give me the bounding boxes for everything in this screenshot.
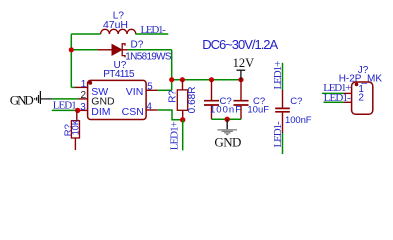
svg-text:3: 3	[80, 102, 86, 113]
capacitor C? 10uF plates	[234, 101, 249, 105]
connector J? H-2P_MK box	[352, 82, 373, 114]
pin 5 lead	[146, 89, 157, 91]
svg-text:100nF: 100nF	[285, 115, 312, 126]
capacitor C? 100nF right lead top	[282, 90, 284, 108]
wire diode to corner	[128, 49, 172, 51]
wire vertical diode to pin5	[171, 50, 173, 91]
wire connector pin2	[324, 101, 344, 103]
ground symbol bars	[218, 129, 238, 135]
wire cap3 bottom stub LED1-	[282, 133, 284, 154]
capacitor C? 100nF right lead bottom	[282, 113, 284, 133]
node junction rail-resistor	[180, 77, 185, 82]
wire pin5 to vertical	[157, 89, 171, 91]
svg-text:H-2P_MK: H-2P_MK	[339, 73, 383, 84]
svg-text:GND: GND	[214, 134, 241, 149]
svg-text:C?: C?	[290, 96, 302, 107]
svg-text:CSN: CSN	[122, 106, 144, 118]
resistor R? 10K body	[71, 121, 79, 138]
node junction rail-diode	[169, 77, 174, 82]
resistor R? 10K lead bottom	[74, 138, 76, 150]
svg-text:0.68R: 0.68R	[187, 87, 198, 114]
svg-text:DC6~30V/1.2A: DC6~30V/1.2A	[202, 37, 278, 52]
inductor L?	[101, 29, 136, 34]
wire top horizontal to inductor	[71, 33, 100, 35]
svg-text:R?: R?	[168, 90, 179, 103]
diode D? schottky cathode bar	[122, 44, 125, 58]
power symbol 12V bar	[237, 70, 246, 80]
svg-text:GND: GND	[10, 93, 34, 108]
svg-text:LED1+: LED1+	[272, 61, 284, 90]
power rail 12V wire	[172, 79, 241, 81]
wire LED1+ stub below junction	[182, 120, 184, 151]
resistor R? 10K lead top	[76, 110, 78, 120]
diode D? cathode lead	[122, 49, 127, 51]
svg-text:VIN: VIN	[126, 86, 144, 98]
svg-text:LED1-: LED1-	[272, 121, 284, 148]
svg-text:DIM: DIM	[91, 106, 110, 118]
pin 2 lead	[78, 98, 88, 100]
svg-text:PT4115: PT4115	[103, 69, 135, 80]
connector pin2 lead	[344, 101, 352, 103]
svg-text:2: 2	[80, 90, 86, 101]
wire connector pin1	[322, 92, 344, 94]
svg-text:100nF: 100nF	[210, 105, 241, 116]
connector pin1 marker dot	[355, 83, 359, 87]
IC U? PT4115 box	[88, 80, 147, 119]
GND power symbol left	[35, 91, 53, 104]
wire pin4 to resistor junction	[157, 110, 182, 120]
resistor R? 0.68R body	[177, 90, 187, 110]
wire ground bus	[212, 118, 242, 120]
diode D? 1N5819WS triangle	[112, 45, 122, 56]
capacitor C? 100nF plates	[204, 101, 219, 105]
diode D? anode lead	[98, 49, 112, 51]
capacitor C? 100nF lead bottom	[211, 106, 213, 120]
node junction gnd bus	[225, 117, 230, 122]
wire junction to diode	[71, 49, 97, 51]
IC pin1 marker dot	[88, 81, 92, 85]
svg-text:2: 2	[358, 93, 364, 104]
svg-text:47uH: 47uH	[103, 19, 128, 31]
capacitor C? 10uF lead bottom	[240, 106, 242, 120]
capacitor C? 100nF right plates	[275, 108, 290, 111]
node junction CSN-R	[180, 117, 185, 122]
wire pin2	[52, 98, 78, 100]
resistor R? 0.68R lead top	[182, 80, 184, 90]
svg-text:10uF: 10uF	[247, 105, 269, 116]
wire left vertical	[70, 34, 72, 87]
svg-text:LED1-: LED1-	[141, 24, 167, 36]
wire net LED1- stub	[135, 33, 168, 35]
svg-text:1N5819WS: 1N5819WS	[125, 51, 172, 62]
svg-text:12V: 12V	[233, 56, 255, 70]
node junction pin3	[75, 108, 80, 113]
svg-text:4: 4	[146, 102, 152, 113]
svg-text:LED1+: LED1+	[168, 121, 180, 150]
connector pin1 lead	[344, 92, 352, 94]
wire pin1 corner	[71, 86, 74, 88]
svg-text:5: 5	[147, 81, 153, 92]
wire pin3 LED1	[52, 109, 78, 111]
resistor R? 0.68R lead bottom	[182, 110, 184, 120]
svg-text:10K: 10K	[70, 119, 80, 135]
capacitor C? 100nF lead top	[211, 80, 213, 100]
ground symbol stem	[226, 119, 228, 129]
pin 4 lead	[146, 109, 157, 111]
wire cap3 top stub LED1+	[282, 63, 284, 90]
node junction rail-12V	[238, 77, 243, 82]
node junction diode tap	[69, 47, 74, 52]
node junction rail-cap1	[209, 77, 214, 82]
svg-text:D?: D?	[131, 40, 144, 51]
svg-text:1: 1	[81, 79, 87, 90]
pin 3 lead	[78, 109, 88, 111]
pin 1 lead	[75, 86, 88, 88]
capacitor C? 10uF lead top	[240, 80, 242, 100]
